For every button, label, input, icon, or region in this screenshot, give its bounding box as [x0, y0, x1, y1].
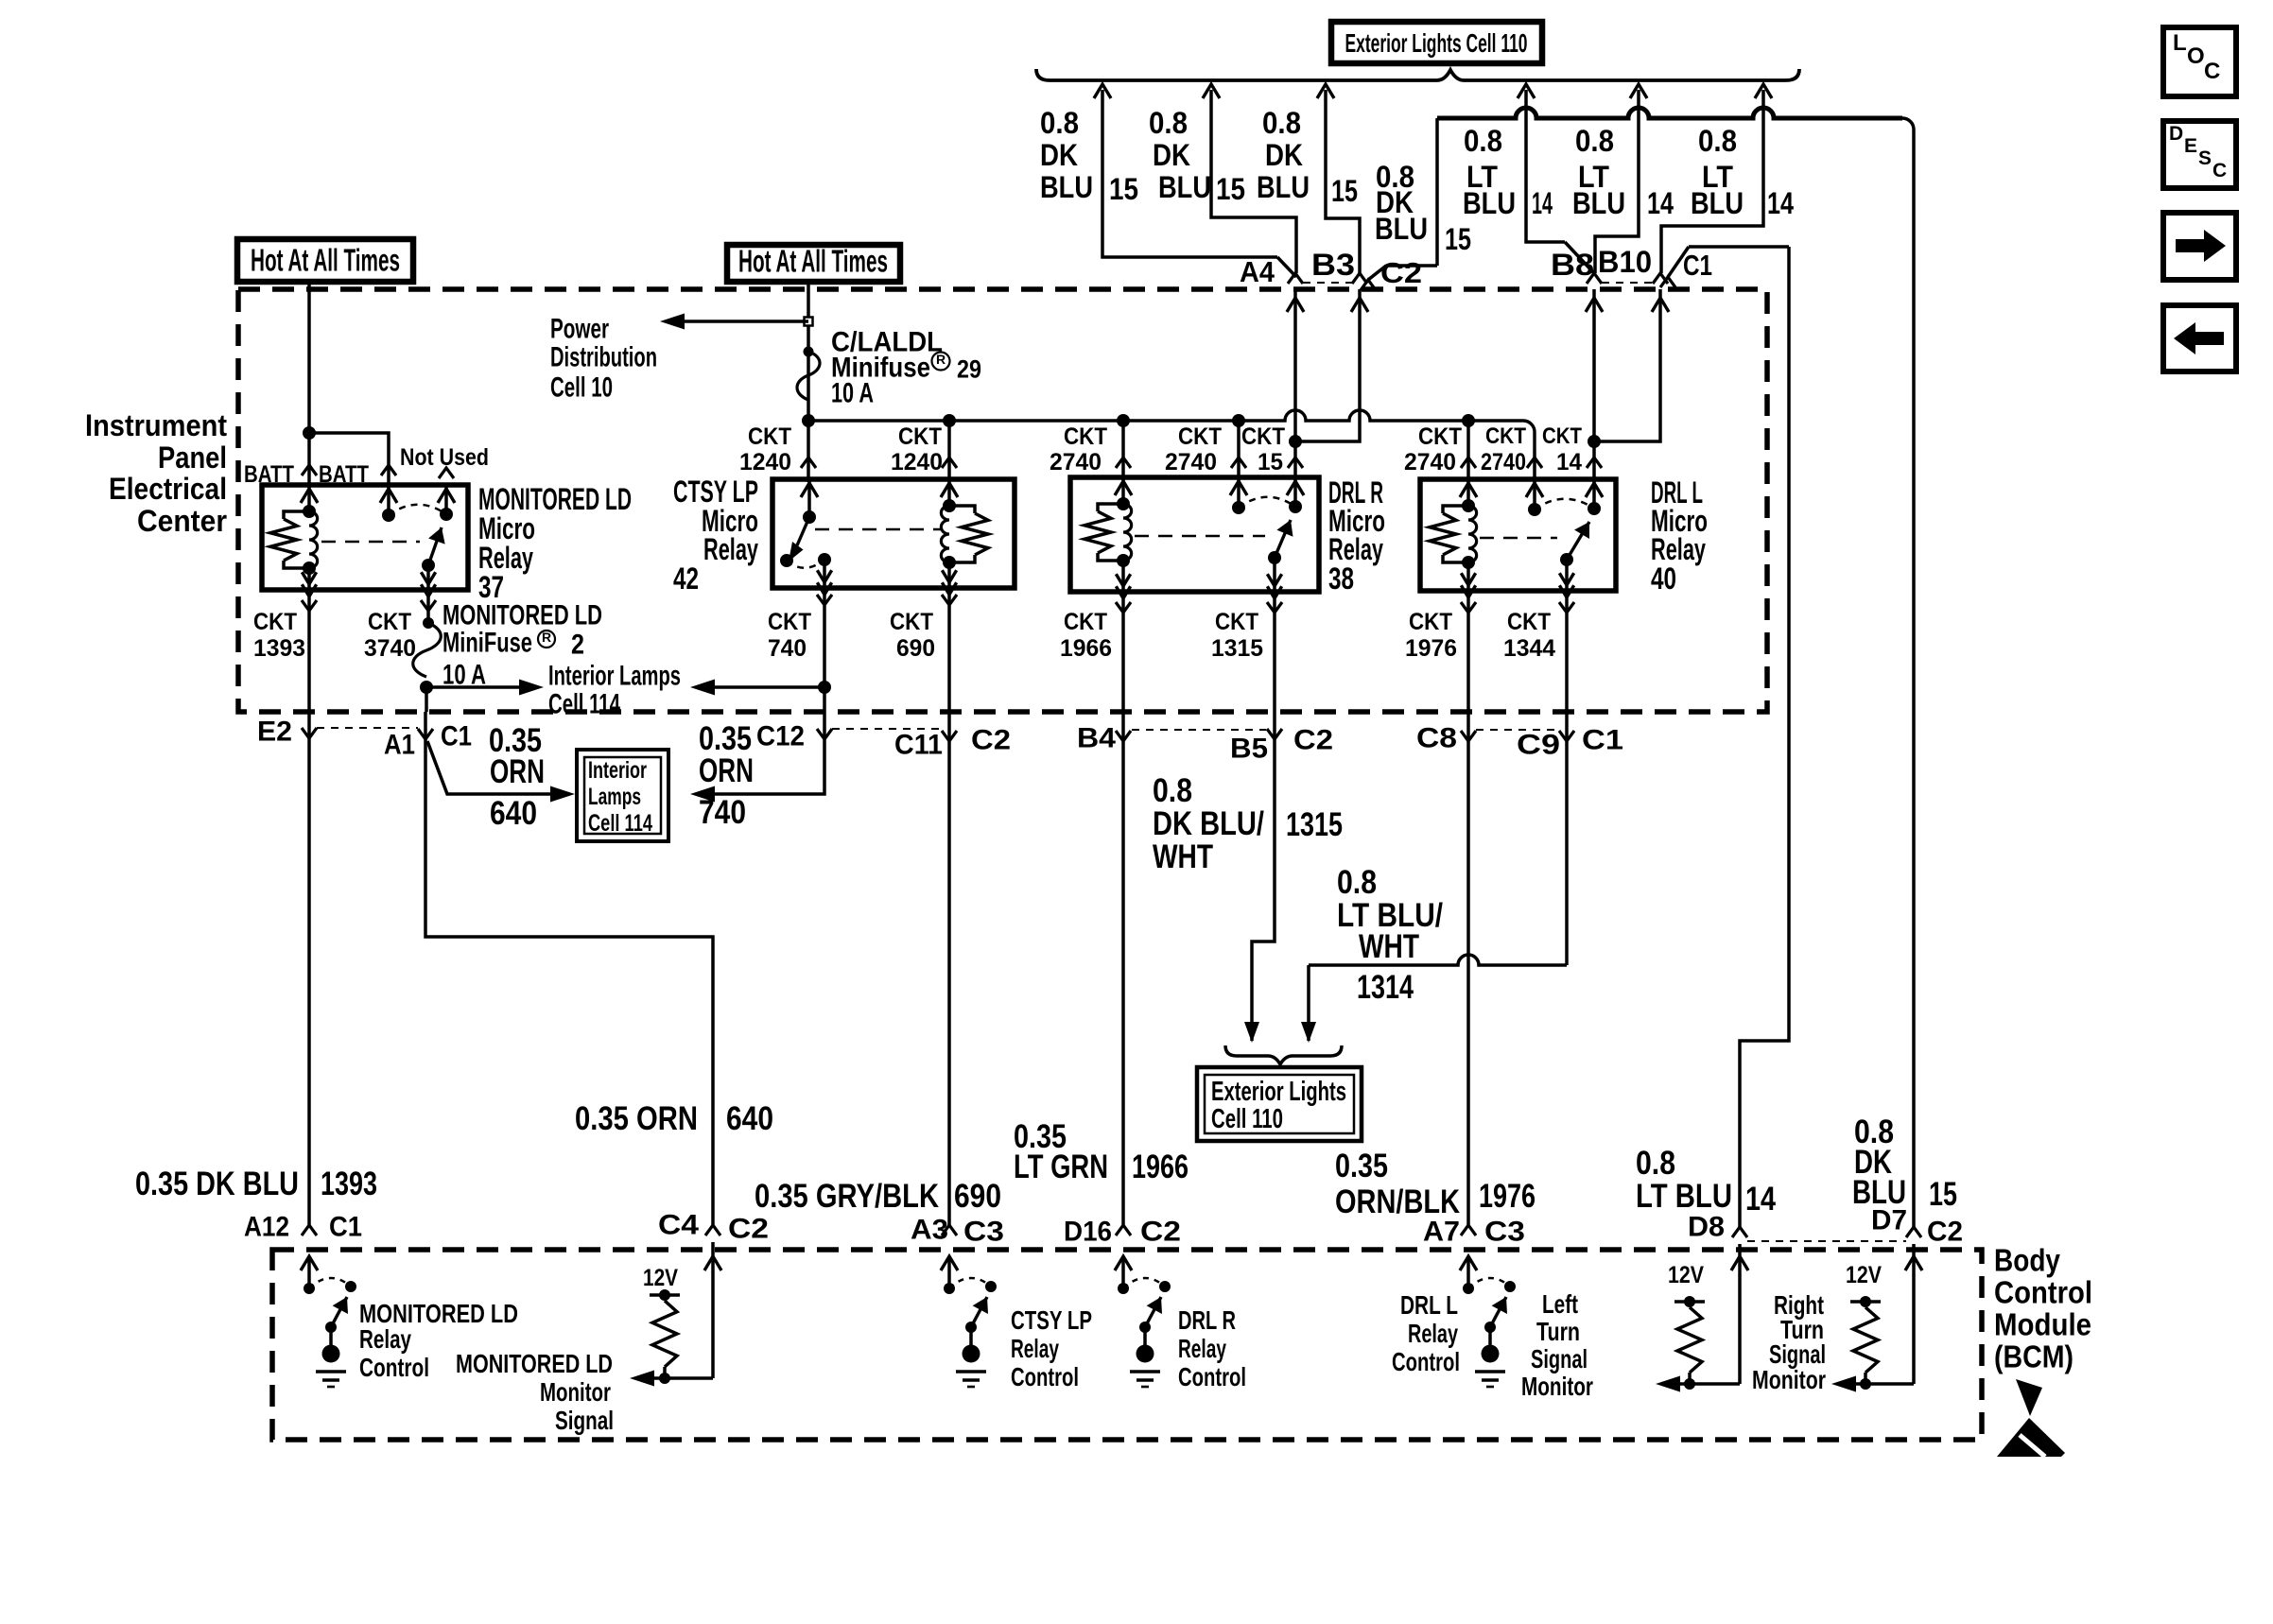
svg-text:Relay: Relay: [1011, 1334, 1059, 1363]
svg-text:38: 38: [1328, 561, 1354, 596]
wire A4 to exterior lights arrow 2: [1211, 90, 1296, 273]
svg-text:CKT: CKT: [1542, 423, 1582, 449]
label box: Hot At All Times (left): [237, 239, 413, 282]
svg-text:LT BLU: LT BLU: [1636, 1178, 1732, 1215]
relay 40 linkage dashed line: [1480, 537, 1557, 540]
svg-text:C2: C2: [728, 1214, 769, 1245]
BCM switch DRL L relay control: [1460, 1256, 1516, 1387]
svg-text:0.8: 0.8: [1337, 864, 1377, 901]
svg-text:12V: 12V: [1846, 1262, 1882, 1288]
svg-text:BLU: BLU: [1158, 170, 1211, 204]
svg-text:Monitor: Monitor: [1752, 1365, 1826, 1394]
connector dashed line C8-C9: [1476, 729, 1559, 731]
svg-text:WHT: WHT: [1153, 838, 1213, 875]
label CKT 690: [890, 609, 935, 662]
relay 42 switch (mirrored): [780, 481, 832, 595]
pin label C3 (A3): [963, 1217, 1004, 1248]
svg-text:2740: 2740: [1050, 449, 1102, 475]
relay 40 coil with resistor: [1430, 481, 1477, 597]
relay 42 coil with resistor: [941, 481, 988, 595]
svg-text:CKT: CKT: [1064, 609, 1107, 635]
pin label B3: [1311, 248, 1355, 282]
svg-text:C2: C2: [1140, 1217, 1181, 1248]
pin D7 chevron: [1906, 1227, 1921, 1237]
wire 1344 C9 to exterior lights arrow: [1301, 712, 1567, 1043]
svg-text:CKT: CKT: [1241, 423, 1285, 450]
wire 1393 E2 to A12: [307, 712, 311, 1225]
label CKT 1966: [1060, 609, 1112, 662]
svg-text:0.8: 0.8: [1636, 1145, 1675, 1182]
svg-text:15: 15: [1258, 449, 1283, 475]
svg-text:C1: C1: [329, 1212, 362, 1243]
svg-text:Control: Control: [1011, 1362, 1079, 1391]
fuse MONITORED LD MiniFuse 2: [413, 617, 442, 694]
svg-text:S: S: [2198, 147, 2212, 169]
svg-text:D16: D16: [1064, 1217, 1112, 1248]
pin label E2: [257, 717, 292, 748]
svg-text:BLU: BLU: [1572, 186, 1625, 220]
label CKT 1976: [1405, 609, 1457, 662]
svg-text:C8: C8: [1416, 723, 1457, 754]
pin B4 chevron: [1116, 731, 1131, 741]
pin A1/C1 chevron: [418, 729, 433, 739]
svg-text:Cell 114: Cell 114: [588, 810, 652, 837]
pin label C3 (A7): [1484, 1217, 1525, 1248]
wire CKT 640 down from fuse 2: [425, 687, 428, 712]
svg-text:Power: Power: [550, 314, 609, 345]
svg-text:0.8: 0.8: [1698, 124, 1737, 158]
svg-text:CTSY LP: CTSY LP: [1011, 1305, 1092, 1335]
pin label C1 (C9 row): [1582, 725, 1623, 756]
svg-text:ORN/BLK: ORN/BLK: [1335, 1183, 1460, 1220]
svg-text:R: R: [936, 352, 946, 367]
pin D16 chevron: [1116, 1225, 1131, 1235]
label 0.35 ORN 740 (C12): [699, 720, 754, 831]
svg-text:A1: A1: [384, 730, 415, 761]
svg-text:Interior: Interior: [588, 757, 647, 784]
BCM resistor 12V right turn signal monitor: [1831, 1262, 1914, 1392]
BATT label 2: [319, 461, 369, 488]
svg-text:1966: 1966: [1132, 1149, 1189, 1185]
svg-text:CKT: CKT: [1409, 609, 1452, 635]
svg-text:A7: A7: [1423, 1217, 1460, 1248]
BATT label 1: [244, 461, 294, 488]
pin CKT 690 wire: [942, 588, 957, 712]
svg-text:Not Used: Not Used: [400, 444, 489, 471]
arrowhead up to exterior lights (arrow 3): [1317, 84, 1334, 98]
pin label C2 (D16): [1140, 1217, 1181, 1248]
svg-text:DK: DK: [1265, 138, 1303, 172]
power distribution tap square: [805, 318, 813, 326]
pin CKT 1344 wire: [1559, 591, 1574, 712]
label CKT 1315: [1211, 609, 1263, 662]
svg-text:CKT: CKT: [1507, 609, 1551, 635]
svg-text:Lamps: Lamps: [588, 784, 641, 810]
reference box: Exterior Lights Cell 110 (top): [1331, 22, 1542, 63]
icon box right arrow: [2163, 213, 2236, 280]
svg-text:Exterior Lights Cell 110: Exterior Lights Cell 110: [1345, 28, 1528, 58]
wire B8 to exterior lights arrow 5: [1595, 90, 1639, 273]
label C/LALDL Minifuse 29: [831, 327, 981, 409]
label 0.8 LT BLU 14 (D8): [1636, 1145, 1776, 1218]
wire C2 to D7 top run (0.8 DK BLU 15): [1368, 108, 1914, 1227]
svg-text:ORN: ORN: [490, 753, 545, 790]
svg-text:C1: C1: [441, 721, 472, 752]
label Power Distribution Cell 10: [550, 314, 657, 404]
wire B3 to exterior lights arrow 3: [1326, 90, 1360, 273]
label DRL L Relay Control: [1392, 1290, 1460, 1376]
pin CKT 2740 (relay 38 coil): [1050, 421, 1131, 480]
svg-text:CKT: CKT: [253, 609, 297, 635]
svg-text:BLU: BLU: [1463, 186, 1516, 220]
svg-text:14: 14: [1767, 186, 1794, 220]
svg-text:B3: B3: [1311, 248, 1355, 282]
svg-text:C9: C9: [1517, 730, 1560, 761]
svg-text:1315: 1315: [1211, 635, 1263, 662]
label 0.8 LT BLU/WHT 1314: [1337, 864, 1443, 1006]
svg-text:1240: 1240: [891, 449, 943, 475]
relay 37 switch: [380, 487, 455, 596]
pin B5 chevron: [1267, 729, 1282, 739]
pin label C2 (B5 row): [1293, 725, 1333, 756]
svg-text:15: 15: [1445, 222, 1471, 256]
svg-text:Electrical: Electrical: [109, 472, 227, 506]
pin label A7: [1423, 1217, 1460, 1248]
pin CKT 2740 (relay 38 switch): [1165, 421, 1246, 480]
connector dashed line E2-A1: [317, 727, 418, 729]
wire label 0.8 DK BLU 15 (C2-D7 long circuit): [1375, 160, 1471, 256]
svg-text:Center: Center: [137, 504, 227, 538]
svg-text:Distribution: Distribution: [550, 342, 657, 373]
svg-text:Panel: Panel: [158, 441, 227, 475]
svg-text:Cell 114: Cell 114: [548, 689, 620, 720]
svg-text:14: 14: [1745, 1181, 1776, 1218]
wire C1 to D8 top run (0.8 LT BLU 14): [1668, 247, 1789, 1227]
label 0.8 DK BLU 15 (D7): [1852, 1114, 1957, 1213]
label CTSY LP Relay Control: [1011, 1305, 1092, 1391]
svg-text:12V: 12V: [1668, 1262, 1704, 1288]
label 0.35 GRY/BLK 690: [755, 1178, 1001, 1215]
pin label D7: [1871, 1205, 1907, 1236]
svg-text:Hot At All Times: Hot At All Times: [738, 244, 888, 279]
svg-text:Monitor: Monitor: [540, 1377, 611, 1407]
svg-text:Relay: Relay: [1408, 1319, 1458, 1348]
pin C2 chevron: [1361, 280, 1376, 290]
svg-text:DRL R: DRL R: [1178, 1305, 1236, 1335]
svg-text:1976: 1976: [1405, 635, 1457, 662]
arrowhead up to exterior lights (arrow 4): [1518, 84, 1535, 98]
diagonal 640 to Interior Lamps arrow: [427, 741, 575, 803]
svg-text:Control: Control: [1178, 1362, 1246, 1391]
relay 40 switch: [1526, 481, 1603, 597]
svg-text:(BCM): (BCM): [1994, 1339, 2073, 1374]
bus wire from fuse to relay pins: [808, 410, 1535, 450]
relay 40 DRL L micro relay box: [1420, 479, 1616, 591]
dashed box: Body Control Module: [272, 1250, 1982, 1440]
svg-text:R: R: [542, 630, 551, 645]
label CKT 1344: [1503, 609, 1555, 662]
relay 37 MONITORED LD micro relay box: [262, 485, 468, 590]
svg-text:12V: 12V: [643, 1265, 678, 1291]
title: Body Control Module (BCM): [1994, 1243, 2092, 1374]
pin CKT 1240 (relay 42 switch): [739, 421, 816, 482]
svg-text:L: L: [2173, 30, 2187, 56]
svg-text:A12: A12: [244, 1212, 289, 1243]
connector dashed line B4-B5: [1132, 729, 1266, 731]
svg-text:C: C: [2204, 59, 2220, 84]
label 0.35 LT GRN 1966: [1014, 1118, 1189, 1185]
svg-text:640: 640: [726, 1100, 773, 1137]
wire from Hot At All Times left to relay 37: [303, 282, 389, 488]
BCM resistor 12V left turn signal monitor: [1656, 1262, 1740, 1392]
relay 37 coil with resistor: [270, 487, 318, 596]
pin CKT 1976 wire: [1461, 591, 1476, 712]
pin label B5: [1230, 734, 1268, 765]
svg-text:D8: D8: [1688, 1212, 1725, 1243]
svg-text:1393: 1393: [253, 635, 305, 662]
wire 640 A1 to C4 with jog: [425, 712, 713, 1225]
label 0.8 DK BLU/WHT 1315: [1153, 772, 1343, 875]
svg-text:42: 42: [673, 561, 699, 596]
pin label C4: [658, 1210, 699, 1241]
pin label C11: [894, 730, 943, 761]
svg-text:0.35: 0.35: [1335, 1148, 1388, 1184]
pin B8 chevron: [1587, 273, 1602, 284]
label MONITORED LD Monitor Signal: [456, 1349, 614, 1435]
svg-text:D: D: [2169, 123, 2183, 145]
pin CKT 14 and wires to B8/B10: [1542, 289, 1669, 482]
svg-text:0.35 GRY/BLK: 0.35 GRY/BLK: [755, 1178, 939, 1215]
svg-text:40: 40: [1651, 561, 1676, 596]
arrowhead up to exterior lights (arrow 1): [1094, 84, 1111, 98]
connector dashed line A4-B3: [1303, 282, 1352, 284]
pin label B4: [1077, 723, 1116, 754]
pin A4 chevron: [1288, 273, 1303, 284]
svg-text:DK: DK: [1040, 138, 1078, 172]
svg-text:1315: 1315: [1286, 806, 1343, 843]
svg-text:C2: C2: [1293, 725, 1333, 756]
svg-text:0.8: 0.8: [1575, 124, 1614, 158]
svg-text:A4: A4: [1240, 255, 1275, 288]
svg-text:Left: Left: [1542, 1289, 1578, 1319]
svg-text:Interior Lamps: Interior Lamps: [548, 661, 681, 692]
svg-text:LT GRN: LT GRN: [1014, 1149, 1108, 1185]
svg-text:C3: C3: [963, 1217, 1004, 1248]
wire label 0.8 DK BLU 15 (C2 upper circuit): [1257, 106, 1358, 208]
pin C12 chevron: [817, 729, 832, 739]
svg-text:29: 29: [957, 354, 981, 383]
wire 1976 C8 to A7: [1466, 712, 1470, 1225]
pin label B10: [1598, 245, 1652, 279]
brace under Exterior Lights Cell 110: [1036, 69, 1799, 80]
pin CKT 1966 wire: [1116, 592, 1131, 712]
BCM resistor 12V monitor (MONITORED LD): [630, 1265, 713, 1387]
svg-text:C2: C2: [1380, 256, 1422, 289]
svg-text:0.8: 0.8: [1149, 106, 1188, 140]
icon box DESC: [2163, 121, 2236, 188]
wire A4 to exterior lights arrow 1: [1102, 90, 1296, 277]
svg-text:Cell 10: Cell 10: [550, 372, 613, 404]
arrow to Power Distribution Cell 10: [660, 314, 808, 330]
svg-text:740: 740: [699, 794, 746, 831]
svg-text:C4: C4: [658, 1210, 699, 1241]
pin CKT 1393: [253, 590, 317, 712]
svg-text:B4: B4: [1077, 723, 1116, 754]
svg-text:BLU: BLU: [1257, 170, 1310, 204]
svg-text:2: 2: [571, 630, 584, 661]
wire B10 to exterior lights arrow 6: [1661, 90, 1763, 273]
svg-text:640: 640: [490, 795, 537, 832]
svg-text:Cell 110: Cell 110: [1211, 1104, 1283, 1134]
svg-text:15: 15: [1109, 172, 1138, 206]
BCM switch CTSY LP relay control: [941, 1256, 997, 1387]
label Interior Lamps Cell 114 (in IPEC): [548, 661, 681, 720]
relay 42 linkage dashed line: [815, 528, 942, 531]
svg-text:0.8: 0.8: [1040, 106, 1079, 140]
svg-text:15: 15: [1929, 1176, 1957, 1213]
svg-text:DK: DK: [1153, 138, 1190, 172]
pin label B8: [1551, 248, 1594, 282]
svg-text:1966: 1966: [1060, 635, 1112, 662]
pin label A1: [384, 730, 415, 761]
svg-text:A3: A3: [911, 1215, 948, 1246]
svg-text:C1: C1: [1683, 249, 1712, 282]
svg-text:DK BLU/: DK BLU/: [1153, 805, 1264, 842]
svg-text:O: O: [2187, 43, 2205, 69]
svg-text:Monitor: Monitor: [1521, 1372, 1593, 1401]
svg-text:2740: 2740: [1404, 449, 1456, 475]
pin C11 chevron: [942, 731, 957, 741]
svg-text:Signal: Signal: [1531, 1344, 1588, 1373]
pin CKT 3740: [364, 590, 436, 662]
box Interior Lamps Cell 114: [577, 750, 668, 841]
relay 38 switch: [1230, 479, 1304, 598]
svg-text:1393: 1393: [321, 1166, 377, 1202]
svg-text:BLU: BLU: [1852, 1174, 1906, 1211]
label DRL R Micro Relay 38: [1328, 475, 1385, 596]
wire label 0.8 LT BLU 14 (B8 circuit): [1463, 124, 1553, 220]
wire D8 left turn signal: [1731, 1244, 1748, 1384]
label CTSY LP Micro Relay 42: [673, 475, 758, 596]
icon box left arrow: [2163, 305, 2236, 371]
pin label C2 (C4): [728, 1214, 769, 1245]
svg-text:1976: 1976: [1479, 1178, 1536, 1215]
pin A3 chevron: [942, 1225, 957, 1235]
svg-text:690: 690: [896, 635, 935, 662]
pin label C1 (BCM): [329, 1212, 362, 1243]
arrowhead up to exterior lights (arrow 6): [1755, 84, 1772, 98]
pin CKT 15 and wires to A4/B3: [1241, 289, 1368, 480]
pin label C8: [1416, 723, 1457, 754]
pin label A3: [911, 1215, 948, 1246]
svg-text:14: 14: [1556, 449, 1582, 475]
pin A12 chevron: [302, 1225, 317, 1235]
BATT pin chevron 2: [381, 465, 396, 475]
svg-text:C2: C2: [1927, 1217, 1963, 1248]
pin C4 chevron: [705, 1225, 720, 1235]
svg-text:15: 15: [1331, 174, 1358, 208]
svg-text:B10: B10: [1598, 245, 1652, 279]
svg-text:0.8: 0.8: [1153, 772, 1192, 809]
svg-text:14: 14: [1532, 186, 1553, 220]
pin E2 chevron: [302, 728, 317, 738]
label Right Turn Signal Monitor: [1752, 1290, 1826, 1394]
svg-text:CKT: CKT: [890, 609, 933, 635]
svg-text:Control: Control: [1392, 1347, 1460, 1376]
connector dashed line B8-B10: [1602, 282, 1654, 284]
wire 690 C11 to A3: [947, 712, 951, 1225]
label Left Turn Signal Monitor: [1521, 1289, 1593, 1401]
svg-text:Relay: Relay: [359, 1324, 411, 1354]
wire label 0.8 DK BLU 15 (A4 circuit): [1040, 106, 1138, 206]
svg-text:Module: Module: [1994, 1307, 2091, 1342]
svg-text:0.35 ORN: 0.35 ORN: [575, 1100, 698, 1137]
svg-text:14: 14: [1647, 186, 1674, 220]
svg-text:CKT: CKT: [748, 423, 791, 450]
pin label A12: [244, 1212, 289, 1243]
label box: Hot At All Times (right): [727, 244, 900, 282]
label 0.35 ORN 640 (lower): [575, 1100, 773, 1137]
Not Used label: [400, 444, 489, 471]
svg-text:2740: 2740: [1481, 449, 1526, 475]
wire D7 right turn signal: [1905, 1244, 1922, 1384]
svg-text:37: 37: [478, 570, 504, 604]
label MONITORED LD MiniFuse 2 10 A: [442, 600, 602, 691]
pin label C1 (A1 connector): [441, 721, 472, 752]
pin label A4: [1240, 255, 1275, 288]
label 0.35 DK BLU 1393: [135, 1166, 377, 1202]
svg-text:Turn: Turn: [1536, 1317, 1580, 1346]
svg-text:Instrument: Instrument: [85, 408, 227, 442]
title: Instrument Panel Electrical Center: [85, 408, 227, 538]
wire C4 monitor signal: [704, 1242, 721, 1378]
wire label 0.8 LT BLU 14 (B10 circuit): [1691, 124, 1794, 220]
svg-text:MONITORED LD: MONITORED LD: [456, 1349, 613, 1378]
svg-text:CKT: CKT: [768, 609, 811, 635]
arrowhead up to exterior lights (arrow 5): [1630, 84, 1647, 98]
svg-text:C2: C2: [971, 725, 1011, 756]
wire B8 to exterior lights arrow 4: [1526, 90, 1594, 273]
label 0.35 ORN/BLK 1976: [1335, 1148, 1536, 1220]
svg-text:Relay: Relay: [703, 532, 758, 566]
label MONITORED LD Relay Control: [359, 1299, 518, 1382]
svg-text:BLU: BLU: [1040, 170, 1093, 204]
relay 37 linkage dashed line: [321, 541, 420, 544]
label 0.35 ORN 640 (upper): [489, 722, 545, 832]
svg-text:C: C: [2212, 160, 2227, 181]
svg-text:Hot At All Times: Hot At All Times: [251, 243, 400, 278]
svg-text:1344: 1344: [1503, 635, 1555, 662]
svg-text:BLU: BLU: [1691, 186, 1744, 220]
svg-text:CKT: CKT: [898, 423, 942, 450]
svg-text:C11: C11: [894, 730, 943, 761]
svg-text:E: E: [2184, 135, 2197, 157]
wire from Hot At All Times right down to fuse: [807, 282, 810, 421]
pin label C2 (D7): [1927, 1217, 1963, 1248]
pin B3 chevron: [1352, 273, 1367, 284]
connector dashed line D8-D7: [1747, 1240, 1906, 1242]
arrowhead up to exterior lights (arrow 2): [1203, 84, 1220, 98]
pin label C12: [756, 721, 805, 752]
svg-text:DRL L: DRL L: [1400, 1290, 1458, 1320]
pin B10 chevron: [1653, 273, 1668, 284]
svg-text:0.8: 0.8: [1464, 124, 1502, 158]
wire 1315 B5 to exterior lights arrow: [1244, 712, 1275, 1043]
label DRL L Micro Relay 40: [1651, 475, 1708, 596]
pin CKT 1315 wire: [1267, 592, 1282, 712]
svg-text:C12: C12: [756, 721, 805, 752]
svg-text:WHT: WHT: [1359, 928, 1419, 965]
